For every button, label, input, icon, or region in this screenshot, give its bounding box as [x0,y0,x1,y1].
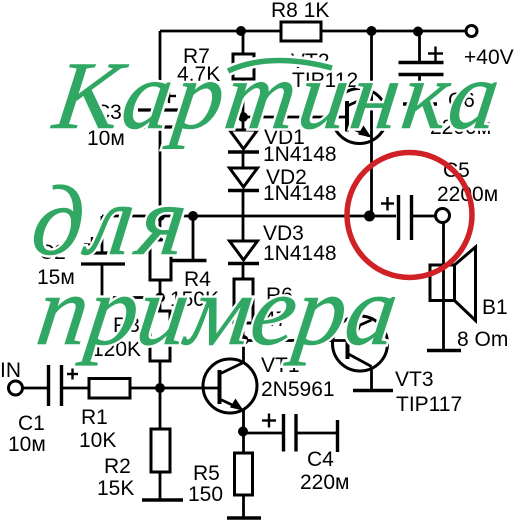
diode VD2 [228,168,259,242]
wire input node to R2 [159,388,162,429]
wire left column mid [159,127,162,240]
node rail-VT2 [367,26,377,36]
node bus-left [155,211,165,221]
transistor VT1 [203,340,257,433]
transistor VT2 [332,31,387,216]
svg-text:R2: R2 [104,455,131,478]
capacitor C3 [138,89,185,127]
wire R2 to ground [159,472,162,500]
wire VT2 base [243,116,347,119]
diode VD3 [228,241,259,279]
capacitor C1 [23,365,90,406]
wire top supply rail [160,30,466,33]
node VT1 emitter [238,427,248,437]
capacitor C6 plus sign [428,47,443,62]
svg-text:C4: C4 [307,448,334,471]
capacitor C5 [372,195,436,240]
diode VD1 [228,117,259,169]
svg-text:2N5961: 2N5961 [261,378,335,401]
svg-text:VT3: VT3 [395,368,434,391]
transistor VT3 [333,316,388,371]
svg-text:IN: IN [0,359,21,382]
capacitor C2 [81,216,125,298]
resistor R2 [151,429,170,472]
node R6-VT1 [239,335,249,345]
wire R3 to input node [159,361,162,388]
svg-text:R1: R1 [81,406,108,429]
svg-text:1N4148: 1N4148 [263,182,337,205]
ground VT3 [353,389,393,392]
node R4-R3 [155,293,165,303]
wire C2 bottom to R4/R3 junction [102,296,160,299]
terminal +40V [466,26,477,37]
svg-text:15K: 15K [97,477,134,500]
node VD chain top [238,112,248,122]
svg-text:Картинка: Картинка [46,42,509,149]
wire output terminal to B1 [442,223,445,351]
node VT1 base [155,383,165,393]
resistor R3 [150,311,170,361]
capacitor C4 [244,414,338,453]
svg-text:220м: 220м [300,471,349,494]
wire mid horizontal bus [102,215,368,218]
wire VT1 emitter to R5 [242,432,245,453]
capacitor C6 [399,31,444,103]
svg-text:примера: примера [31,254,405,365]
svg-text:C1: C1 [18,412,45,435]
wire R5 to ground [242,495,245,518]
svg-text:TIP117: TIP117 [396,393,462,416]
ground C6 [403,102,437,105]
annotation red circle [347,153,472,278]
terminal output node [436,209,450,223]
node tap stub with bar [172,216,207,261]
resistor R1 [89,379,160,399]
resistor R5 [235,453,253,495]
svg-text:B1: B1 [482,296,508,319]
svg-text:150: 150 [188,483,223,506]
ground R5 [227,516,261,519]
resistor R6 [234,279,253,340]
svg-text:R8 1K: R8 1K [271,0,329,22]
node rail-C6 [413,27,423,37]
svg-text:10K: 10K [79,429,116,452]
node bus-stub [188,211,198,221]
svg-text:R5: R5 [193,462,220,485]
wire VT3 base [243,339,348,342]
wire left column upper [159,31,162,110]
wire VT1 base [160,387,220,390]
resistor R7 [233,31,254,117]
svg-text:10м: 10м [8,433,46,456]
wire VT3 collector to ground [370,367,373,391]
ground R2 [142,498,183,501]
resistor R8 [281,22,321,41]
terminal IN [9,381,23,395]
svg-text:8 Om: 8 Om [457,328,508,351]
node output [364,211,375,222]
wire R4 to R3 [159,280,162,311]
speaker B1 [430,247,476,321]
ground B1 [427,349,461,352]
node rail-R7 [236,26,246,36]
watermark t-overline stroke [228,60,332,71]
resistor R4 [150,240,171,280]
